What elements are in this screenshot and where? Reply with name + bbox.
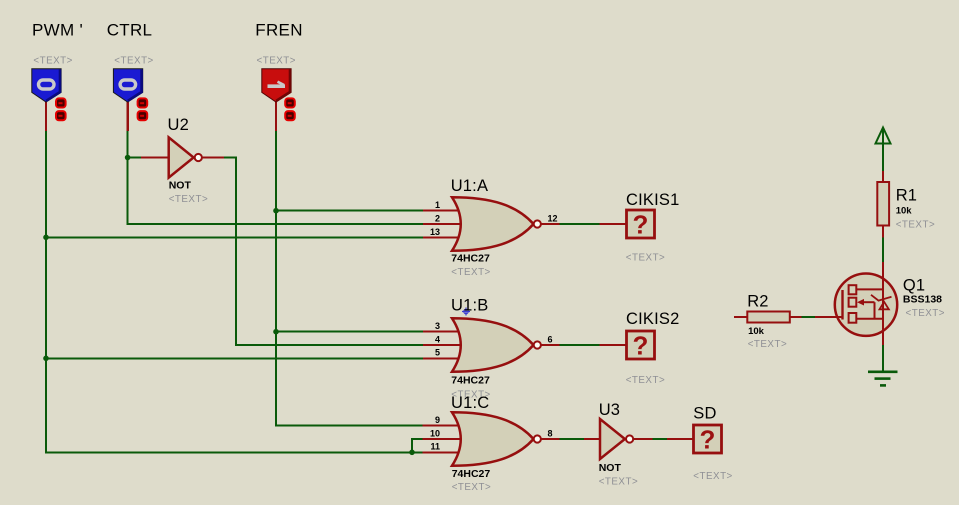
pin U2 output: [202, 157, 224, 159]
svg-text:U2: U2: [168, 116, 190, 134]
svg-text:<TEXT>: <TEXT>: [599, 477, 638, 488]
label U2: [168, 116, 190, 134]
pin 5 U1:B: [423, 357, 461, 359]
svg-text:10k: 10k: [748, 326, 765, 337]
label U1:B: [451, 297, 488, 315]
text placeholder CIKIS2: [626, 375, 665, 386]
svg-text:U1:A: U1:A: [451, 177, 488, 195]
pin CIKIS1 probe: [600, 223, 628, 225]
svg-text:?: ?: [633, 210, 649, 240]
svg-text:<TEXT>: <TEXT>: [626, 253, 665, 264]
label FREN: [255, 20, 302, 39]
text placeholder R1: [896, 219, 935, 230]
svg-text:2: 2: [435, 214, 440, 224]
resistor R1: [877, 182, 889, 226]
label R1: [896, 186, 918, 204]
svg-text:9: 9: [435, 415, 440, 425]
svg-text:3: 3: [435, 321, 440, 331]
svg-text:NOT: NOT: [599, 462, 622, 474]
pin number 3: [435, 321, 440, 331]
pin number 5: [435, 348, 440, 358]
pin R1 bottom: [882, 225, 884, 238]
wire U2 output to pin 4: [223, 158, 423, 346]
svg-text:<TEXT>: <TEXT>: [451, 267, 490, 278]
wire R2 to Q1 gate: [802, 316, 816, 318]
text placeholder U1:A: [451, 267, 490, 278]
button 2 of CTRL: [138, 111, 148, 120]
Q1 channel contact boxes: [849, 285, 857, 294]
svg-text:U3: U3: [599, 401, 621, 419]
svg-text:CTRL: CTRL: [107, 20, 153, 39]
pin of CTRL logicstate: [126, 102, 128, 131]
button 1 of FREN: [285, 98, 295, 107]
svg-text:FREN: FREN: [255, 20, 302, 39]
svg-text:<TEXT>: <TEXT>: [693, 471, 732, 482]
logicstate PWM body: [32, 69, 61, 102]
pin number 11: [430, 442, 440, 452]
svg-text:SD: SD: [693, 405, 716, 423]
svg-text:<TEXT>: <TEXT>: [114, 55, 153, 66]
resistor R2: [747, 312, 790, 323]
text placeholder PWM: [33, 55, 72, 66]
svg-text:74HC27: 74HC27: [451, 374, 490, 386]
text placeholder Q1: [906, 308, 945, 319]
svg-text:13: 13: [430, 227, 440, 237]
value 10k of R2: [748, 326, 765, 337]
svg-text:BSS138: BSS138: [903, 293, 942, 305]
wire pin10 branch: [412, 439, 423, 452]
junction FREN/pin3: [273, 329, 279, 335]
svg-text:4: 4: [435, 334, 440, 344]
wire pin3 row: [276, 331, 423, 333]
svg-text:<TEXT>: <TEXT>: [896, 219, 935, 230]
pin number 8: [548, 428, 553, 438]
value BSS138 of Q1: [903, 293, 942, 305]
label R2: [747, 293, 769, 311]
pin CIKIS2 probe: [600, 344, 628, 346]
inverter U3: [600, 419, 633, 459]
svg-text:5: 5: [435, 348, 440, 358]
svg-text:CIKIS2: CIKIS2: [626, 310, 679, 328]
svg-text:<TEXT>: <TEXT>: [748, 339, 787, 350]
svg-text:<TEXT>: <TEXT>: [257, 55, 296, 66]
svg-text:6: 6: [548, 334, 553, 344]
pin 12 U1:A output: [541, 223, 560, 225]
text placeholder FREN: [257, 55, 296, 66]
svg-text:NOT: NOT: [169, 180, 192, 192]
Q1 gate pin (into circle): [815, 316, 843, 318]
label CIKIS1: [626, 191, 679, 209]
value 74HC27 of U1:C: [452, 468, 491, 480]
pin number 1: [435, 200, 440, 210]
pin SD probe: [667, 438, 694, 440]
text placeholder SD: [693, 471, 732, 482]
pin of FREN logicstate: [275, 102, 277, 131]
wire PWM net vertical + bottom run to pin 11: [46, 130, 423, 452]
wire U3 output to SD: [652, 438, 667, 440]
wire pin5 row: [46, 357, 423, 359]
pin 6 U1:B output: [541, 344, 560, 346]
text placeholder U2: [169, 194, 208, 205]
pin 3 U1:B: [423, 331, 461, 333]
svg-text:?: ?: [700, 425, 716, 455]
pin R2 left: [734, 316, 748, 318]
Q1 drain link: [856, 288, 883, 290]
wire CTRL net vertical to pin 2: [128, 130, 423, 224]
label SD: [693, 405, 716, 423]
button 1 of CTRL: [138, 98, 148, 107]
svg-text:<TEXT>: <TEXT>: [626, 375, 665, 386]
svg-text:?: ?: [633, 331, 649, 361]
junction PWM/pin13: [43, 235, 49, 241]
text placeholder U1:B: [451, 390, 490, 401]
svg-text:11: 11: [430, 442, 440, 452]
pin 9 U1:C: [423, 425, 462, 427]
pin number 13: [430, 227, 440, 237]
svg-text:U1:C: U1:C: [451, 394, 489, 412]
svg-text:12: 12: [548, 213, 558, 223]
Q1 gate bar: [841, 290, 843, 320]
svg-text:U1:B: U1:B: [451, 297, 488, 315]
value 74HC27 of U1:B: [451, 374, 490, 386]
pin 13 U1:A: [423, 236, 461, 238]
text placeholder CTRL: [114, 55, 153, 66]
wire Q1 source to ground: [882, 345, 884, 372]
value NOT of U2: [169, 180, 192, 192]
pin U2 input: [141, 157, 169, 159]
pin U3 input: [584, 438, 601, 440]
Q1 substrate arrow: [863, 301, 875, 303]
label U3: [599, 401, 621, 419]
wire U2 input tap: [128, 157, 142, 159]
wire U1:B output to CIKIS2: [559, 344, 600, 346]
label CTRL: [107, 20, 153, 39]
svg-text:<TEXT>: <TEXT>: [452, 482, 491, 493]
logic probe CIKIS1: [627, 210, 655, 240]
svg-text:R2: R2: [747, 293, 769, 311]
logicstate FREN body: [262, 69, 291, 102]
transistor Q1 (BSS138 MOSFET): [815, 262, 897, 345]
button 2 of PWM: [56, 111, 66, 120]
svg-text:1: 1: [435, 200, 440, 210]
NOR gate U1:B: [452, 318, 541, 371]
pin number 12: [548, 213, 558, 223]
pin R1 top: [882, 171, 884, 183]
origin marker U1:B: [462, 308, 470, 316]
pin U3 output: [633, 438, 652, 440]
pin 8 U1:C output: [542, 438, 560, 440]
svg-text:PWM ': PWM ': [32, 20, 83, 39]
text placeholder U1:C: [452, 482, 491, 493]
label Q1: [903, 276, 925, 294]
Q1 drain-source vertical: [882, 262, 884, 345]
svg-text:74HC27: 74HC27: [451, 253, 490, 265]
logic probe CIKIS2: [627, 331, 655, 361]
pin number 2: [435, 214, 440, 224]
ground: [868, 372, 898, 386]
svg-text:10: 10: [430, 428, 440, 438]
text placeholder CIKIS1: [626, 253, 665, 264]
pin number 6: [548, 334, 553, 344]
pin 2 U1:A: [423, 223, 461, 225]
svg-text:CIKIS1: CIKIS1: [626, 191, 679, 209]
junction FREN/pin1: [273, 208, 279, 214]
pin number 9: [435, 415, 440, 425]
svg-text:74HC27: 74HC27: [452, 468, 491, 480]
pin of PWM logicstate: [45, 102, 47, 131]
value NOT of U3: [599, 462, 622, 474]
button 1 of PWM: [56, 98, 66, 107]
svg-text:<TEXT>: <TEXT>: [33, 55, 72, 66]
NOR gate U1:C: [452, 412, 541, 465]
wire pin1 row: [276, 210, 423, 212]
wire U1:A output to CIKIS1: [559, 223, 600, 225]
text placeholder U3: [599, 477, 638, 488]
wire power to R1: [882, 144, 884, 171]
svg-text:<TEXT>: <TEXT>: [906, 308, 945, 319]
Q1 source link: [856, 318, 883, 320]
pin 10 U1:C: [423, 438, 462, 440]
label CIKIS2: [626, 310, 679, 328]
pin number 4: [435, 334, 440, 344]
logic probe SD: [694, 425, 722, 455]
pin 11 U1:C: [423, 451, 462, 453]
wire FREN net vertical to pin 9: [276, 130, 423, 426]
wire U1:C output to U3: [559, 438, 584, 440]
Q1 body diode: [880, 302, 889, 310]
inverter U2: [169, 137, 202, 177]
pin number 10: [430, 428, 440, 438]
junction CTRL/U2 input: [125, 155, 131, 161]
pin 1 U1:A: [423, 210, 461, 212]
junction pin10/pin11 branch: [409, 450, 415, 456]
label U1:A: [451, 177, 488, 195]
svg-text:8: 8: [548, 428, 553, 438]
junction PWM/pin5: [43, 356, 49, 362]
svg-text:10k: 10k: [896, 206, 913, 217]
label U1:C: [451, 394, 489, 412]
button 2 of FREN: [285, 111, 295, 120]
logicstate CTRL body: [113, 69, 142, 102]
value 74HC27 of U1:A: [451, 253, 490, 265]
value 10k of R1: [896, 206, 913, 217]
pin 4 U1:B: [423, 344, 461, 346]
svg-text:Q1: Q1: [903, 276, 925, 294]
NOR gate U1:A: [452, 197, 541, 250]
text placeholder R2: [748, 339, 787, 350]
power symbol: [876, 128, 891, 146]
svg-text:R1: R1: [896, 186, 918, 204]
label PWM: [32, 20, 83, 39]
pin R2 right: [790, 316, 802, 318]
svg-text:<TEXT>: <TEXT>: [169, 194, 208, 205]
wire R1 to Q1 drain: [882, 237, 884, 263]
wire pin13 row: [46, 236, 423, 238]
